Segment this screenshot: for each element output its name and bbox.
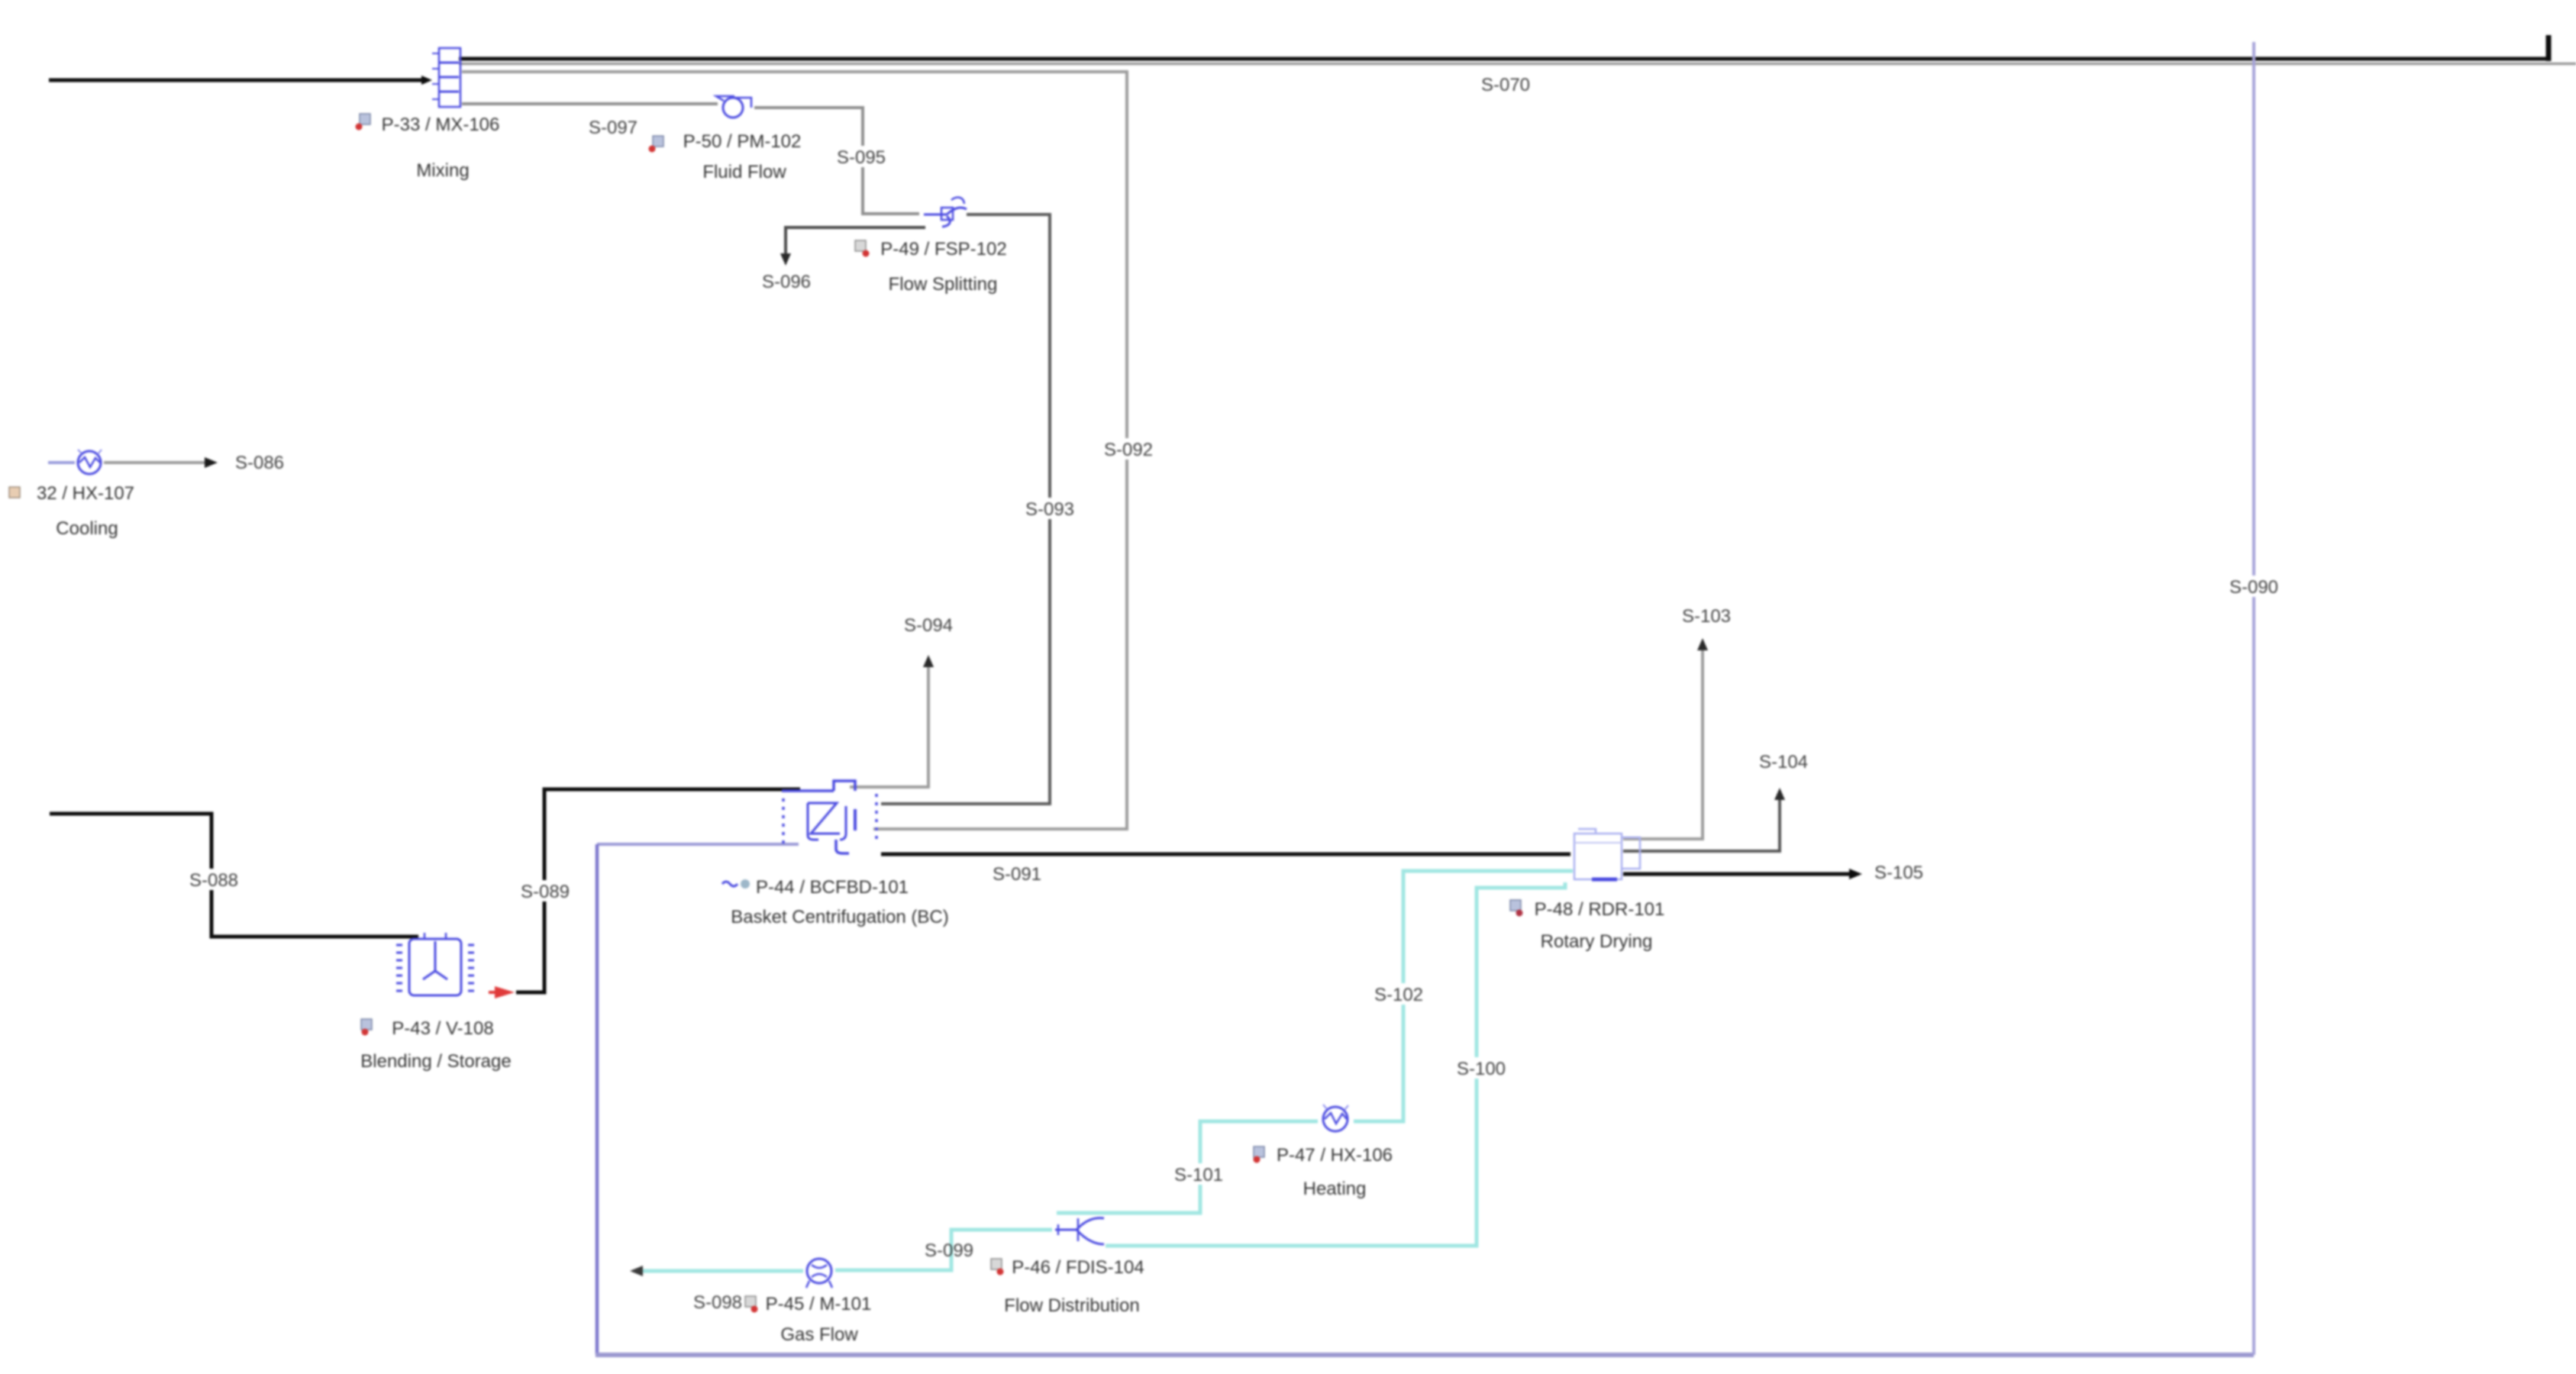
wire S-105 dryer solids out	[1623, 869, 1862, 879]
svg-text:S-102: S-102	[1374, 985, 1423, 1005]
wire S-104 dryer vent 2	[1623, 788, 1785, 851]
unit P-45 / M-101 label	[745, 1294, 871, 1345]
svg-text:S-099: S-099	[925, 1240, 973, 1261]
svg-text:Mixing: Mixing	[416, 160, 469, 181]
unit P-46 / FDIS-104 label	[991, 1257, 1144, 1316]
basket centrifuge BCFBD-101 icon	[782, 781, 876, 853]
node S-100 label	[1454, 1057, 1509, 1079]
node S-104 label	[1759, 752, 1808, 772]
svg-text:S-097: S-097	[589, 118, 638, 138]
node S-086 label	[235, 453, 284, 473]
wire feed into mixer	[49, 76, 432, 85]
wire S-097 mixer to pump	[462, 102, 718, 105]
svg-text:S-098: S-098	[693, 1292, 742, 1313]
flow distributor FDIS-104 icon	[1055, 1218, 1104, 1244]
node S-094 label	[904, 615, 953, 636]
wire S-091 centrifuge to rotary dryer	[881, 853, 1570, 856]
wire S-070 top black stream	[459, 35, 2549, 61]
wire S-092 from mixer to centrifuge right side	[462, 72, 1127, 829]
node S-105 label	[1874, 863, 1923, 883]
unit P-47 / HX-106 label	[1254, 1145, 1393, 1199]
blender V-108 vessel icon	[396, 933, 474, 995]
node S-095 label	[834, 146, 889, 168]
node S-098 label	[693, 1292, 742, 1313]
red outlet arrow of blender	[489, 986, 515, 998]
wire S-100 dryer exhaust to distributor	[1106, 882, 1565, 1246]
svg-text:Cooling: Cooling	[56, 518, 118, 539]
svg-text:S-105: S-105	[1874, 863, 1923, 883]
wire gray companion under S-070	[459, 63, 2576, 66]
wire S-088 feed to blender	[50, 814, 418, 937]
heater HX-106 icon	[1323, 1105, 1348, 1131]
svg-text:S-089: S-089	[521, 882, 570, 902]
svg-text:Heating: Heating	[1303, 1179, 1367, 1199]
node S-093 label	[1022, 498, 1077, 520]
node S-092 label	[1101, 438, 1156, 460]
svg-text:S-092: S-092	[1104, 440, 1153, 460]
svg-text:Blending / Storage: Blending / Storage	[360, 1051, 511, 1072]
unit P-43 / V-108 label	[360, 1018, 511, 1072]
node S-088 label	[186, 869, 241, 891]
svg-text:P-49 / FSP-102: P-49 / FSP-102	[880, 239, 1006, 260]
unit P-50 / PM-102 label	[649, 131, 802, 182]
node S-103 label	[1682, 606, 1731, 627]
node S-091 label	[993, 864, 1041, 885]
svg-text:P-46 / FDIS-104: P-46 / FDIS-104	[1012, 1257, 1144, 1278]
wire S-095 pump to flow splitter	[754, 108, 919, 214]
svg-text:S-093: S-093	[1025, 499, 1074, 520]
svg-text:S-070: S-070	[1481, 75, 1530, 95]
wire S-099 distributor to gas fan	[835, 1230, 1052, 1270]
svg-text:S-104: S-104	[1759, 752, 1808, 772]
wire S-090 purple recycle loop	[596, 42, 2254, 1355]
svg-text:P-47 / HX-106: P-47 / HX-106	[1277, 1145, 1393, 1166]
svg-text:S-100: S-100	[1457, 1059, 1506, 1079]
node S-102 label	[1371, 983, 1426, 1005]
svg-text:S-090: S-090	[2229, 577, 2278, 598]
wire S-093 splitter to centrifuge	[881, 214, 1050, 804]
node S-090 label	[2226, 576, 2283, 598]
svg-text:S-096: S-096	[762, 272, 811, 292]
wire S-098 fan purge out	[630, 1266, 803, 1276]
node S-070 label	[1481, 75, 1530, 95]
node S-101 label	[1171, 1163, 1226, 1185]
svg-text:P-45 / M-101: P-45 / M-101	[766, 1294, 872, 1314]
svg-text:P-50 / PM-102: P-50 / PM-102	[683, 131, 802, 152]
svg-text:S-088: S-088	[189, 870, 238, 891]
rotary dryer RDR-101 icon	[1574, 829, 1640, 879]
svg-text:S-086: S-086	[235, 453, 284, 473]
node S-096 label	[762, 272, 811, 292]
svg-text:S-094: S-094	[904, 615, 953, 636]
unit P-44 / BCFBD-101 label	[722, 877, 949, 927]
svg-text:P-43 / V-108: P-43 / V-108	[392, 1018, 493, 1039]
svg-text:P-48 / RDR-101: P-48 / RDR-101	[1535, 899, 1665, 920]
svg-text:Rotary Drying: Rotary Drying	[1541, 931, 1653, 952]
flow splitter FSP-102 icon	[924, 198, 967, 227]
node S-097 label	[589, 118, 638, 138]
mixer MX-106 icon	[432, 48, 460, 107]
node S-099 label	[925, 1240, 973, 1261]
svg-text:S-101: S-101	[1174, 1165, 1223, 1185]
svg-text:S-103: S-103	[1682, 606, 1731, 627]
wire S-101 distributor to heater	[1057, 1121, 1318, 1213]
svg-text:Flow Splitting: Flow Splitting	[889, 274, 998, 295]
unit P-49 / FSP-102 label	[855, 239, 1007, 295]
svg-text:Basket Centrifugation (BC): Basket Centrifugation (BC)	[731, 907, 948, 927]
wire S-103 dryer vent	[1623, 638, 1708, 839]
svg-text:Flow Distribution: Flow Distribution	[1004, 1295, 1139, 1316]
wire S-086 cooling outlet	[48, 457, 218, 468]
svg-text:Gas Flow: Gas Flow	[780, 1324, 858, 1345]
svg-text:P-44 / BCFBD-101: P-44 / BCFBD-101	[756, 877, 909, 898]
unit P-32 / HX-107 label	[9, 483, 134, 539]
wire S-102 heater to dryer hot gas	[1354, 871, 1573, 1121]
gas fan M-101 icon	[806, 1259, 832, 1288]
svg-text:32 / HX-107: 32 / HX-107	[37, 483, 134, 504]
wire S-089 blender to centrifuge	[516, 789, 800, 992]
svg-text:S-091: S-091	[993, 864, 1041, 885]
svg-text:Fluid Flow: Fluid Flow	[702, 162, 786, 182]
wire S-094 centrifuge top vent	[850, 655, 934, 787]
svg-text:S-095: S-095	[837, 147, 886, 168]
wire S-096 splitter left branch	[780, 227, 925, 266]
pump PM-102 icon	[716, 96, 751, 118]
svg-text:P-33 / MX-106: P-33 / MX-106	[382, 114, 500, 135]
unit P-33 / MX-106 label	[356, 114, 500, 181]
node S-089 label	[518, 880, 573, 902]
cooler HX-107 icon	[78, 450, 102, 474]
unit P-48 / RDR-101 label	[1510, 899, 1664, 952]
